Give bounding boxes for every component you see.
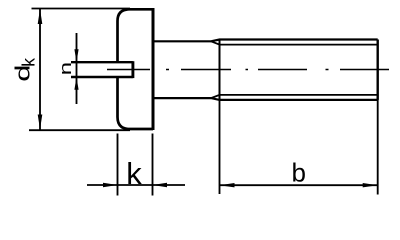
svg-text:n: n [56, 62, 74, 75]
svg-text:k: k [19, 58, 39, 67]
svg-text:k: k [126, 156, 142, 191]
svg-text:b: b [292, 158, 306, 188]
